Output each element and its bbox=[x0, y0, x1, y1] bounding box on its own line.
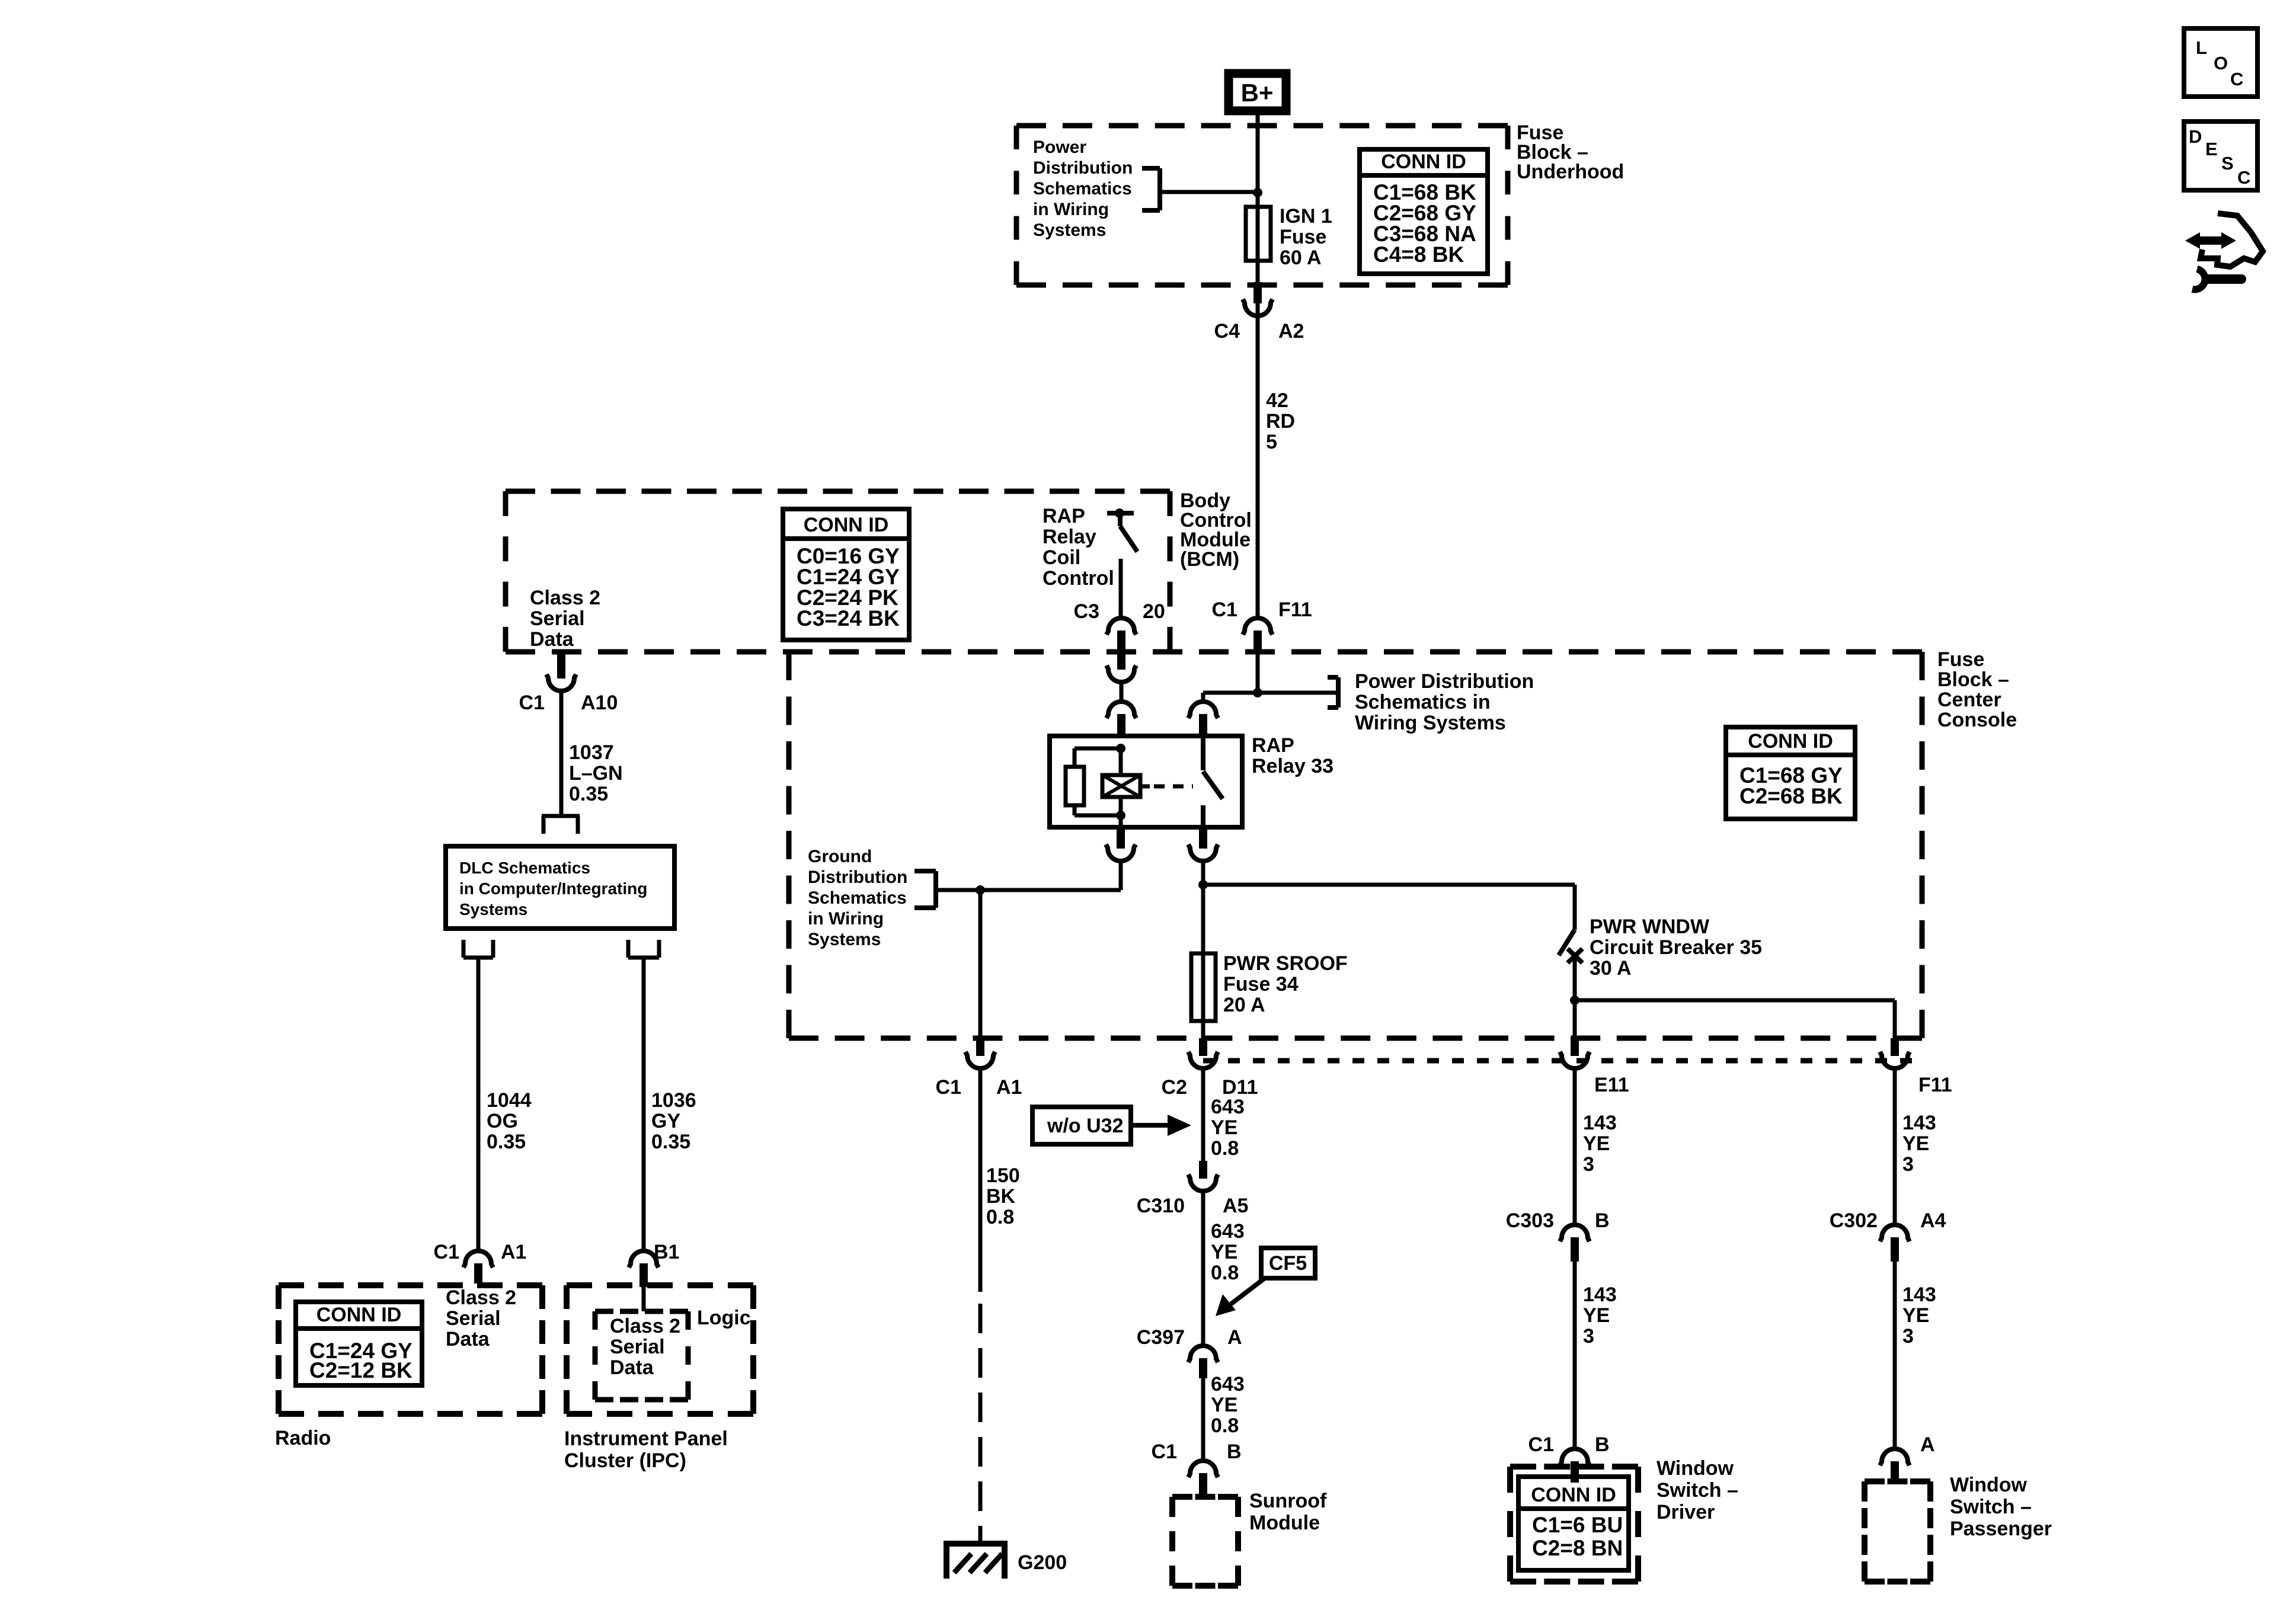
svg-text:(BCM): (BCM) bbox=[1180, 548, 1239, 571]
svg-text:Data: Data bbox=[610, 1356, 654, 1379]
svg-text:Switch –: Switch – bbox=[1657, 1479, 1738, 1502]
svg-text:Schematics: Schematics bbox=[808, 888, 907, 908]
svg-text:1044: 1044 bbox=[487, 1089, 532, 1112]
svg-text:RD: RD bbox=[1266, 410, 1295, 433]
svg-text:Switch –: Switch – bbox=[1950, 1496, 2032, 1518]
svg-text:Window: Window bbox=[1950, 1474, 2028, 1496]
svg-text:Sunroof: Sunroof bbox=[1249, 1490, 1327, 1512]
svg-text:GY: GY bbox=[651, 1110, 680, 1132]
svg-text:in Wiring: in Wiring bbox=[808, 909, 884, 929]
svg-text:B: B bbox=[1595, 1209, 1610, 1232]
svg-text:143: 143 bbox=[1902, 1112, 1936, 1134]
svg-text:20: 20 bbox=[1143, 600, 1165, 623]
svg-text:YE: YE bbox=[1211, 1241, 1237, 1263]
svg-text:Class 2: Class 2 bbox=[610, 1315, 680, 1337]
svg-text:Power Distribution: Power Distribution bbox=[1355, 670, 1534, 693]
svg-text:0.8: 0.8 bbox=[1211, 1414, 1239, 1437]
svg-text:0.8: 0.8 bbox=[1211, 1262, 1239, 1284]
svg-text:143: 143 bbox=[1583, 1112, 1617, 1134]
svg-text:Center: Center bbox=[1937, 689, 2001, 711]
svg-text:60 A: 60 A bbox=[1280, 247, 1322, 269]
svg-text:3: 3 bbox=[1583, 1325, 1594, 1347]
svg-text:Schematics: Schematics bbox=[1033, 179, 1132, 199]
svg-text:42: 42 bbox=[1266, 389, 1288, 412]
svg-text:C1: C1 bbox=[1212, 598, 1237, 621]
svg-text:Ground: Ground bbox=[808, 847, 872, 866]
svg-text:150: 150 bbox=[986, 1164, 1020, 1187]
svg-text:Control: Control bbox=[1043, 567, 1114, 590]
svg-text:Cluster (IPC): Cluster (IPC) bbox=[564, 1449, 686, 1472]
svg-text:C302: C302 bbox=[1830, 1209, 1878, 1232]
svg-text:Logic: Logic bbox=[697, 1307, 751, 1329]
svg-text:E: E bbox=[2205, 139, 2218, 159]
svg-text:Systems: Systems bbox=[808, 930, 881, 949]
svg-text:A2: A2 bbox=[1278, 320, 1304, 343]
svg-text:B+: B+ bbox=[1241, 79, 1274, 107]
svg-text:0.35: 0.35 bbox=[651, 1131, 690, 1153]
svg-text:L: L bbox=[2196, 37, 2207, 58]
svg-text:0.35: 0.35 bbox=[569, 783, 608, 805]
svg-text:L–GN: L–GN bbox=[569, 762, 623, 785]
svg-text:Fuse 34: Fuse 34 bbox=[1223, 973, 1299, 996]
svg-text:C4: C4 bbox=[1214, 320, 1240, 343]
svg-text:Instrument Panel: Instrument Panel bbox=[564, 1427, 728, 1450]
svg-text:5: 5 bbox=[1266, 431, 1277, 453]
svg-text:E11: E11 bbox=[1594, 1074, 1629, 1096]
svg-text:BK: BK bbox=[986, 1185, 1016, 1208]
svg-text:Distribution: Distribution bbox=[808, 868, 907, 887]
svg-text:C1: C1 bbox=[519, 692, 545, 714]
svg-text:Systems: Systems bbox=[459, 900, 527, 918]
svg-text:CONN ID: CONN ID bbox=[804, 514, 889, 536]
svg-text:Serial: Serial bbox=[610, 1336, 665, 1358]
svg-text:CONN ID: CONN ID bbox=[1748, 730, 1833, 753]
svg-text:1037: 1037 bbox=[569, 741, 614, 764]
svg-text:Relay 33: Relay 33 bbox=[1252, 755, 1334, 777]
svg-text:Fuse: Fuse bbox=[1280, 226, 1326, 248]
svg-text:PWR SROOF: PWR SROOF bbox=[1223, 952, 1348, 975]
svg-text:RAP: RAP bbox=[1252, 734, 1294, 757]
svg-text:C2: C2 bbox=[1162, 1076, 1187, 1099]
svg-text:0.8: 0.8 bbox=[986, 1206, 1014, 1228]
svg-text:3: 3 bbox=[1902, 1325, 1914, 1347]
svg-text:3: 3 bbox=[1902, 1153, 1914, 1176]
svg-text:O: O bbox=[2214, 53, 2228, 73]
svg-text:0.8: 0.8 bbox=[1211, 1137, 1239, 1160]
svg-text:A: A bbox=[1920, 1433, 1935, 1456]
svg-text:YE: YE bbox=[1583, 1304, 1610, 1327]
svg-text:PWR WNDW: PWR WNDW bbox=[1590, 916, 1710, 938]
svg-text:C303: C303 bbox=[1506, 1209, 1554, 1232]
svg-text:Class 2: Class 2 bbox=[530, 587, 600, 609]
svg-text:YE: YE bbox=[1211, 1394, 1237, 1416]
svg-text:A1: A1 bbox=[501, 1241, 526, 1263]
svg-text:3: 3 bbox=[1583, 1153, 1594, 1176]
svg-text:C397: C397 bbox=[1137, 1326, 1185, 1349]
svg-text:G200: G200 bbox=[1018, 1551, 1067, 1574]
svg-text:Data: Data bbox=[530, 628, 574, 651]
svg-text:CF5: CF5 bbox=[1269, 1252, 1307, 1275]
svg-text:Schematics in: Schematics in bbox=[1355, 691, 1491, 713]
svg-text:CONN ID: CONN ID bbox=[316, 1304, 402, 1326]
svg-text:Fuse: Fuse bbox=[1937, 648, 1984, 671]
svg-text:Data: Data bbox=[446, 1328, 490, 1350]
svg-text:20 A: 20 A bbox=[1223, 994, 1265, 1016]
svg-text:IGN 1: IGN 1 bbox=[1280, 205, 1332, 228]
svg-text:Radio: Radio bbox=[275, 1427, 331, 1449]
svg-text:C4=8 BK: C4=8 BK bbox=[1373, 242, 1464, 267]
svg-text:A4: A4 bbox=[1920, 1209, 1946, 1232]
svg-text:643: 643 bbox=[1211, 1220, 1245, 1243]
svg-text:Distribution: Distribution bbox=[1033, 158, 1133, 178]
svg-text:C1: C1 bbox=[936, 1076, 961, 1099]
svg-text:A5: A5 bbox=[1223, 1195, 1248, 1217]
svg-text:OG: OG bbox=[487, 1110, 518, 1132]
svg-text:DLC Schematics: DLC Schematics bbox=[459, 859, 590, 877]
svg-text:Passenger: Passenger bbox=[1950, 1518, 2052, 1540]
svg-text:S: S bbox=[2221, 153, 2234, 174]
svg-text:YE: YE bbox=[1211, 1116, 1237, 1139]
svg-text:in Wiring: in Wiring bbox=[1033, 200, 1109, 219]
svg-text:Underhood: Underhood bbox=[1517, 161, 1624, 183]
svg-text:0.35: 0.35 bbox=[487, 1131, 526, 1153]
svg-text:C: C bbox=[2237, 167, 2250, 188]
svg-text:YE: YE bbox=[1902, 1132, 1929, 1155]
svg-text:C1: C1 bbox=[434, 1241, 459, 1263]
svg-text:C3: C3 bbox=[1074, 600, 1099, 623]
svg-text:A10: A10 bbox=[581, 692, 618, 714]
svg-text:B: B bbox=[1227, 1441, 1242, 1463]
svg-text:643: 643 bbox=[1211, 1373, 1245, 1395]
svg-text:143: 143 bbox=[1583, 1283, 1617, 1306]
svg-text:A: A bbox=[1227, 1326, 1242, 1349]
svg-text:Serial: Serial bbox=[446, 1307, 501, 1330]
svg-text:Relay: Relay bbox=[1043, 526, 1096, 548]
svg-text:Circuit Breaker 35: Circuit Breaker 35 bbox=[1590, 936, 1762, 959]
svg-text:Serial: Serial bbox=[530, 607, 585, 630]
svg-text:Block –: Block – bbox=[1937, 668, 2009, 691]
svg-text:1036: 1036 bbox=[651, 1089, 696, 1112]
svg-text:C1=6 BU: C1=6 BU bbox=[1532, 1513, 1623, 1537]
svg-text:Wiring Systems: Wiring Systems bbox=[1355, 712, 1506, 734]
svg-text:in Computer/Integrating: in Computer/Integrating bbox=[459, 879, 647, 898]
svg-text:A1: A1 bbox=[996, 1076, 1022, 1099]
svg-text:CONN ID: CONN ID bbox=[1381, 151, 1466, 173]
svg-text:643: 643 bbox=[1211, 1096, 1245, 1118]
svg-text:Systems: Systems bbox=[1033, 220, 1106, 240]
svg-text:Coil: Coil bbox=[1043, 546, 1080, 569]
svg-text:C3=24 BK: C3=24 BK bbox=[797, 606, 900, 630]
svg-text:Console: Console bbox=[1937, 709, 2017, 731]
svg-text:C2=68 BK: C2=68 BK bbox=[1739, 784, 1843, 808]
svg-text:B: B bbox=[1595, 1433, 1610, 1456]
svg-text:YE: YE bbox=[1902, 1304, 1929, 1327]
svg-text:C2=8 BN: C2=8 BN bbox=[1532, 1536, 1623, 1560]
svg-text:C2=12 BK: C2=12 BK bbox=[309, 1358, 412, 1382]
svg-text:Driver: Driver bbox=[1657, 1501, 1715, 1523]
svg-text:Module: Module bbox=[1249, 1512, 1320, 1534]
svg-text:w/o U32: w/o U32 bbox=[1047, 1115, 1123, 1137]
svg-text:Window: Window bbox=[1657, 1457, 1734, 1480]
svg-text:F11: F11 bbox=[1918, 1074, 1952, 1096]
svg-text:C: C bbox=[2230, 69, 2243, 89]
svg-text:F11: F11 bbox=[1278, 598, 1312, 621]
svg-text:30 A: 30 A bbox=[1590, 957, 1632, 980]
svg-text:D: D bbox=[2189, 126, 2202, 147]
svg-text:Class 2: Class 2 bbox=[446, 1286, 516, 1309]
svg-text:143: 143 bbox=[1902, 1283, 1936, 1306]
svg-text:C1: C1 bbox=[1152, 1441, 1177, 1463]
svg-text:YE: YE bbox=[1583, 1132, 1610, 1155]
svg-text:RAP: RAP bbox=[1043, 505, 1085, 527]
svg-text:Power: Power bbox=[1033, 137, 1086, 157]
svg-text:C310: C310 bbox=[1137, 1195, 1185, 1217]
svg-text:C1: C1 bbox=[1528, 1433, 1554, 1456]
svg-text:CONN ID: CONN ID bbox=[1531, 1484, 1616, 1506]
